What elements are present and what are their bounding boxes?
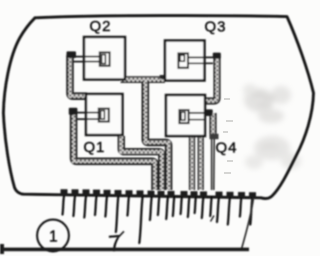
thin wire from Q4 trace foot to pad row <box>212 139 215 190</box>
svg-text:Q1: Q1 <box>84 139 106 156</box>
scan black bar bottom <box>0 248 249 252</box>
svg-text:Q3: Q3 <box>205 19 227 36</box>
transistor Q1 plate <box>86 94 123 135</box>
bond pad of Q2 trace <box>67 51 77 58</box>
wire trace connecting Q2 and Q3 plates <box>121 75 165 80</box>
pad row on bottom edge <box>61 189 257 199</box>
wire stub 1 under Q4 plate to pad row <box>189 137 195 191</box>
svg-text:Q4: Q4 <box>216 140 238 157</box>
transistor Q2 plate <box>84 37 125 80</box>
wire trace from Q3 pad down to Q4 plate <box>205 55 218 101</box>
scan smudge mid-right <box>245 136 301 169</box>
bond wires Q2 <box>73 57 100 62</box>
package outline <box>3 16 313 199</box>
wire trace A: Q1 pad down, right, down to pad row <box>74 111 155 190</box>
scan black blob bottom-left <box>0 244 4 254</box>
wire trace C: center drop from Q2-Q3 connector to pad row <box>145 81 168 190</box>
pin number circle 1 <box>37 220 69 252</box>
die Q4 <box>179 110 188 123</box>
die Q3 <box>178 53 188 67</box>
die Q2 <box>100 52 110 65</box>
transistor Q3 plate <box>165 41 205 81</box>
wire trace from Q4 pad down (short band with foot) <box>210 113 219 139</box>
bond pad of Q4 trace <box>205 109 212 116</box>
svg-text:Q2: Q2 <box>90 18 112 35</box>
tick of label 7 <box>118 231 125 238</box>
bond wires Q3 <box>188 57 216 63</box>
curve from package bottom-right going down <box>241 198 253 250</box>
bond wires Q1 <box>76 113 99 120</box>
pin leads <box>60 196 252 243</box>
stray tick near pin 16 <box>211 216 215 222</box>
die Q1 <box>99 109 109 122</box>
transistor Q4 plate <box>166 95 205 136</box>
package bottom edge <box>21 194 261 198</box>
scan noise dashes right of Q3/Q4 <box>223 98 233 174</box>
scan smudge upper-right <box>243 84 291 123</box>
bond wires Q4 <box>189 113 207 120</box>
bond pad of Q1 trace <box>69 108 78 115</box>
wire stub 2 under Q4 plate to pad row <box>198 137 204 191</box>
svg-text:1: 1 <box>49 229 58 246</box>
bond pad of Q3 trace <box>213 53 221 59</box>
wire trace from Q2 pad down to Q1 plate (L-shape) <box>70 55 87 96</box>
wire trace B: from Q1 bottom-right corner, right, down to pad row <box>121 136 162 190</box>
